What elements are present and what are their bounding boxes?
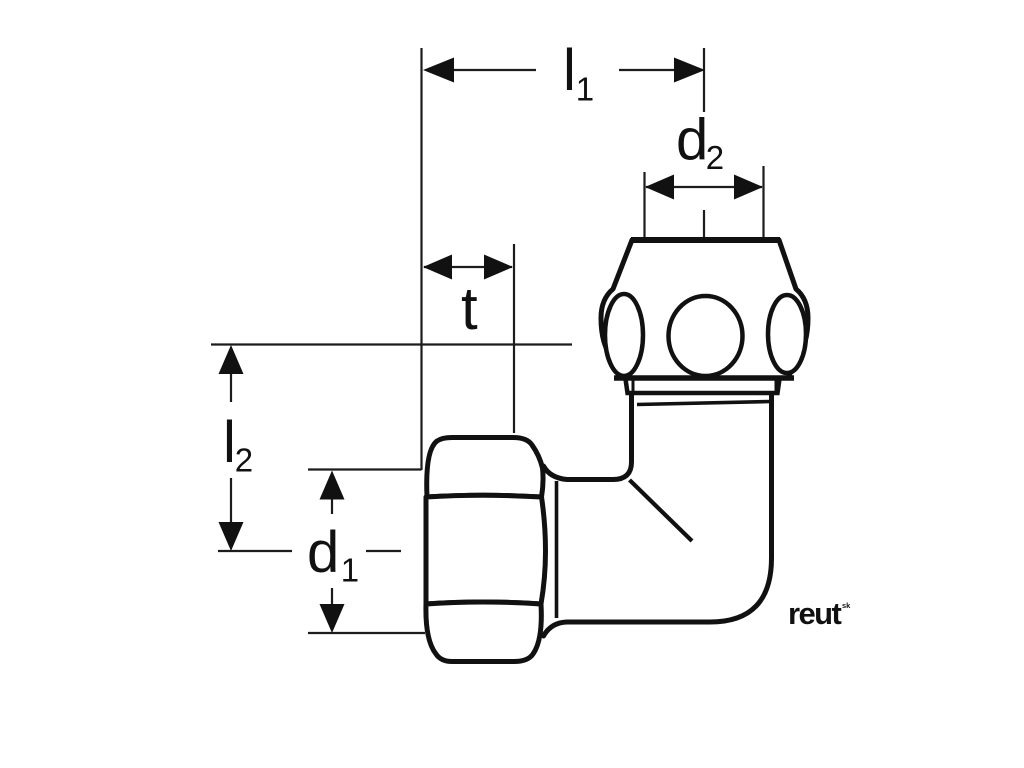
ring flange inner tick left: [632, 379, 635, 391]
label d1: [307, 520, 359, 589]
hex nut bottom face: [426, 602, 541, 662]
internal miter diagonal line: [630, 480, 693, 541]
svg-text:sk: sk: [842, 601, 851, 610]
dimension d1 bottom arrowhead: [320, 604, 345, 633]
label l1: [563, 38, 594, 108]
svg-text:reut: reut: [788, 596, 841, 631]
dimension l1 right arrowhead: [674, 58, 705, 83]
extension line right of l1 (x=704): [703, 48, 705, 238]
svg-text:l: l: [563, 38, 576, 103]
svg-text:1: 1: [341, 552, 359, 589]
reference line bottom (d1 lower, y=633): [308, 632, 425, 634]
dimension l1 left arrowhead: [423, 58, 454, 83]
dimension l2 bottom arrowhead: [219, 522, 244, 551]
crown nut body (top fitting): [601, 240, 808, 378]
label l2: [223, 410, 253, 479]
crown nut center hole: [669, 296, 743, 376]
ring flange below crown nut: [626, 379, 780, 393]
crown nut bottom edge: [614, 375, 794, 381]
dimension t line: [424, 266, 512, 268]
dimension t left arrowhead: [423, 255, 452, 280]
svg-text:d: d: [676, 108, 708, 173]
extension lines d2: [645, 166, 764, 238]
crown nut top edge (thicker): [631, 237, 780, 243]
dimension t right arrowhead: [484, 255, 513, 280]
hex nut top face: [427, 438, 543, 498]
crown nut left hole: [605, 294, 643, 376]
dimension d1 top arrowhead: [320, 471, 345, 500]
dimension d1 line (vertical x=332): [331, 496, 333, 607]
tube right edge with elbow bottom corner: [544, 394, 772, 636]
dimension l2 top arrowhead: [219, 345, 244, 374]
svg-text:d: d: [307, 520, 339, 585]
tube left edge with inner elbow corner and saddle to hex nut: [544, 394, 632, 480]
dimension d2 left arrowhead: [645, 175, 674, 200]
ring flange inner tick right: [775, 379, 778, 391]
svg-text:2: 2: [706, 139, 724, 176]
reference line middle (d1 upper, y=469.5): [308, 468, 422, 470]
tube inner shading line: [637, 402, 771, 405]
extension line left (x=421.5): [420, 48, 422, 470]
nut-body junction vertical line: [555, 481, 559, 618]
svg-text:2: 2: [235, 442, 253, 479]
dimension l2 line (vertical x=231): [230, 370, 232, 526]
label d2: [676, 108, 724, 177]
reference line top (l2 upper, y=344.5): [211, 343, 572, 345]
svg-text:t: t: [461, 275, 478, 342]
extension line right of t (x=514): [513, 244, 515, 433]
dimension d2 right arrowhead: [734, 175, 763, 200]
dimension d2 line: [646, 186, 762, 188]
svg-text:1: 1: [576, 71, 594, 108]
dimension l1 line: [428, 69, 702, 71]
reut logo: [788, 596, 851, 631]
d1 leader line segments at y=551: [218, 550, 401, 552]
hex nut middle face: [426, 495, 546, 604]
crown nut right hole: [768, 295, 806, 373]
